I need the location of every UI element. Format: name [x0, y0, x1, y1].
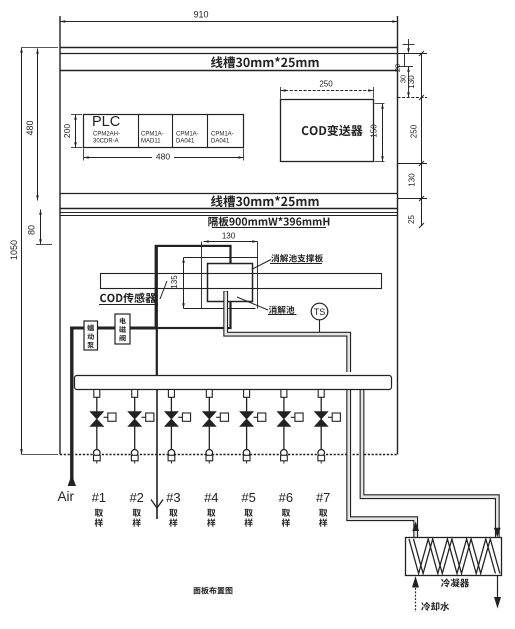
drawing title 面板布置图 [193, 587, 232, 595]
bulkhead fitting V6 [281, 450, 288, 464]
svg-text:#1: #1 [92, 490, 106, 505]
svg-text:130: 130 [407, 75, 416, 89]
svg-text:CPM2AH-: CPM2AH- [93, 132, 120, 138]
leader line from COD sensor label to bar [160, 281, 167, 299]
dimension 135 digestion cell height [182, 258, 185, 309]
partition double line [60, 213, 398, 216]
svg-text:130: 130 [222, 232, 236, 241]
svg-text:CPM1A-: CPM1A- [176, 132, 199, 138]
cooling water outlet line [497, 575, 499, 598]
condenser label 冷凝器 [441, 578, 469, 587]
sample valve V3 [165, 390, 191, 450]
svg-text:#5: #5 [241, 490, 255, 505]
COD sensor mounting bar [101, 274, 382, 289]
partition label 隔板900mmW*396mmH [208, 217, 329, 227]
label 消解池支撑板 [271, 254, 323, 262]
dimension 480 PLC width [84, 149, 244, 161]
flow arrow up into return pipe [412, 522, 419, 532]
panel right edge [397, 16, 399, 455]
sample point label #6 [279, 490, 293, 527]
dimension chain line right [419, 51, 424, 228]
flow arrow down into condenser [494, 528, 501, 538]
PLC box [84, 115, 244, 148]
svg-text:CPM1A-: CPM1A- [141, 132, 164, 138]
sample valve V5 [240, 390, 266, 450]
cooling water inlet line [415, 588, 417, 612]
svg-text:150: 150 [370, 124, 379, 138]
svg-text:135: 135 [170, 275, 179, 289]
panel bottom edge (dashed) [60, 454, 398, 456]
svg-text:MAD11: MAD11 [141, 139, 161, 145]
dimension 80 [36, 210, 52, 245]
svg-text:DA041: DA041 [176, 139, 195, 145]
svg-text:250: 250 [319, 80, 333, 89]
underline of support plate label [270, 263, 322, 265]
sample point label #1 [92, 490, 106, 527]
partition label underline [212, 227, 326, 229]
pipe from digestion cell to TS line and down (double line) [226, 291, 349, 372]
dimension 130 digestion cell width [204, 240, 258, 243]
wire duct top band [60, 54, 398, 71]
svg-text:250: 250 [410, 124, 419, 138]
panel left edge [59, 16, 61, 455]
svg-text:TS: TS [314, 307, 326, 317]
dimension 200 PLC height [71, 115, 83, 148]
COD transmitter label COD变送器 [302, 125, 363, 137]
dimension 250 COD box width [281, 87, 374, 99]
drain arrowhead (open V) [151, 500, 163, 509]
svg-text:PLC: PLC [92, 114, 120, 130]
label 消解池 [269, 306, 295, 314]
wire duct 2 label 线槽30mm*25mm [211, 195, 319, 207]
sample point label #3 [166, 490, 180, 527]
sample point label #5 [241, 490, 255, 527]
svg-text:Air: Air [58, 489, 75, 504]
PLC module CPM1A-MAD11 [141, 132, 164, 145]
sample valve V2 [128, 390, 154, 450]
sample valve V1 [90, 390, 116, 450]
dimension 910 overall width [60, 20, 398, 23]
PLC module dividers [139, 115, 208, 148]
dimension 1050 overall height [20, 48, 58, 455]
svg-text:#7: #7 [316, 490, 330, 505]
svg-text:200: 200 [62, 124, 72, 138]
svg-text:1050: 1050 [9, 240, 19, 260]
svg-text:130: 130 [408, 173, 417, 187]
condenser shell [406, 538, 502, 576]
PLC module CPM1A-DA041 (2) [211, 132, 234, 145]
peristaltic pump box 蠕动泵 [84, 321, 98, 350]
cooling water outlet arrow (down) [494, 597, 501, 609]
svg-text:#3: #3 [166, 490, 180, 505]
PLC module CPM1A-DA041 (1) [176, 132, 199, 145]
svg-text:#4: #4 [204, 490, 218, 505]
leader line to support plate label [253, 260, 272, 270]
air flow arrow (up) [68, 475, 76, 487]
cooling water label 冷却水 [421, 602, 449, 611]
dimension 30 [407, 67, 410, 98]
underline of digestion cell label [268, 314, 297, 316]
condenser coil zigzag [409, 539, 500, 574]
svg-text:910: 910 [193, 10, 208, 20]
support frame box (thick) [156, 246, 231, 328]
svg-text:30CDR-A: 30CDR-A [93, 139, 119, 145]
right extension lines [398, 54, 428, 199]
svg-text:20: 20 [393, 64, 402, 72]
svg-text:480: 480 [156, 152, 170, 162]
sample point label #7 [316, 490, 330, 527]
sample valve V6 [277, 390, 303, 450]
COD transmitter box [281, 100, 374, 162]
bulkhead fitting V3 [168, 450, 175, 464]
inner reference lines around digestion cell [184, 242, 258, 309]
svg-text:CPM1A-: CPM1A- [211, 132, 234, 138]
svg-text:#2: #2 [129, 490, 143, 505]
panel top edge [60, 47, 398, 49]
drain line [156, 390, 158, 520]
mini dimension leader top right [403, 39, 415, 54]
bulkhead fitting V7 [318, 450, 325, 464]
temperature switch TS circle [311, 303, 328, 320]
svg-text:80: 80 [27, 225, 37, 235]
bulkhead fitting V1 [94, 450, 101, 464]
sample point label #4 [204, 490, 218, 527]
svg-text:25: 25 [407, 215, 416, 224]
air supply pipe horizontal [70, 327, 156, 330]
dimension 20 [404, 54, 406, 67]
PLC CPU module CPM2AH-30CDR-A [93, 132, 120, 145]
wire duct bottom band [60, 194, 398, 209]
sample manifold bar [75, 376, 392, 390]
dimension 480 upper section height [36, 49, 39, 201]
svg-text:480: 480 [25, 120, 35, 135]
solenoid valve box 电磁阀 [115, 314, 130, 344]
sample valve V7 [314, 390, 340, 450]
svg-text:DA041: DA041 [211, 139, 230, 145]
leader line to digestion cell label [237, 297, 268, 310]
air supply pipe vertical [70, 327, 73, 487]
supply pipe from manifold to condenser (double line) [362, 390, 497, 537]
underline of COD sensor label [99, 304, 158, 306]
bulkhead fitting V2 [131, 450, 138, 464]
mounting rail (thick vertical) [156, 246, 158, 375]
TS stem [319, 320, 321, 333]
sample valve V4 [203, 390, 229, 450]
svg-text:#6: #6 [279, 490, 293, 505]
label COD传感器 [100, 293, 156, 303]
bulkhead fitting V5 [243, 450, 250, 464]
bulkhead fitting V4 [206, 450, 213, 464]
return pipe from condenser (double line, lower left run) [349, 390, 416, 537]
sample point label #2 [129, 490, 143, 527]
dimension 150 COD box height [375, 104, 385, 162]
wire duct 1 label 线槽30mm*25mm [211, 56, 319, 68]
cooling water inlet arrow (up) [412, 576, 419, 588]
digestion cell (white square) [208, 264, 253, 302]
